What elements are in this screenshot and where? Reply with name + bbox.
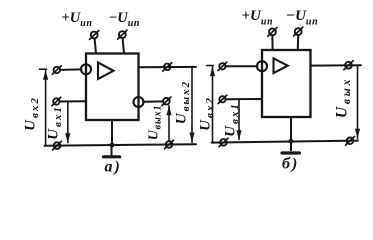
terminal rail right (a) — [165, 140, 174, 149]
junction (b) — [289, 139, 294, 144]
svg-text:Uвх1: Uвх1 — [46, 105, 64, 140]
dimension line Uвх2 (a) — [40, 69, 49, 145]
ground (b) — [282, 141, 300, 153]
terminal input 2 (b) — [218, 95, 227, 103]
wire +Uип to box top (a) — [95, 38, 96, 53]
terminal -Uип (a) — [118, 30, 127, 39]
svg-text:−Uип: −Uип — [286, 8, 318, 28]
op-amp U1 amplifier triangle — [98, 63, 114, 80]
svg-text:Uвх2: Uвх2 — [23, 96, 41, 131]
inversion circle input 1 (b) — [257, 61, 267, 71]
terminal rail right (b) — [346, 137, 355, 146]
dimension line Uвых1 (a) — [166, 106, 171, 142]
terminal rail left (a) — [53, 141, 62, 150]
wire +Uип to box top (b) — [271, 35, 273, 50]
terminal +Uип (b) — [268, 28, 277, 37]
svg-text:Uвх1: Uвх1 — [223, 102, 241, 137]
svg-text:+Uип: +Uип — [62, 10, 93, 29]
svg-text:Uвых2: Uвых2 — [174, 80, 192, 124]
terminal input 2 (a) — [52, 97, 61, 105]
wire -Uип to box top (b) — [297, 35, 299, 50]
ground (a) — [104, 145, 120, 157]
wire input 2 (b) — [226, 98, 262, 100]
dimension line Uвх1 (a) — [65, 102, 70, 143]
svg-text:Uвх2: Uвх2 — [198, 96, 216, 131]
terminal input 1 (b) — [218, 62, 227, 70]
terminal output (b) — [344, 61, 353, 70]
op-amp U2 amplifier triangle — [274, 58, 288, 73]
dimension line Uвых2 (a) — [189, 67, 194, 143]
common rail (b) — [212, 141, 359, 143]
wire output 1 top (a) — [139, 66, 197, 68]
terminal -Uип (b) — [294, 27, 303, 36]
common rail (a) — [45, 144, 197, 146]
svg-text:−Uип: −Uип — [109, 10, 141, 29]
terminal output 1 (a) — [163, 63, 172, 72]
terminal output 2 (a) — [162, 97, 171, 106]
op-amp U1 box — [86, 54, 139, 121]
inversion circle output 2 (a) — [134, 97, 144, 107]
terminal input 1 (a) — [52, 66, 61, 74]
svg-text:б): б) — [282, 156, 299, 173]
wire input 1 (a) — [60, 68, 81, 71]
dimension line Uвых (b) — [355, 65, 360, 138]
junction (a) — [110, 143, 115, 148]
wire output (b) — [311, 64, 362, 66]
inversion circle input 1 (a) — [81, 64, 91, 74]
dimension line Uвх2 (b) — [207, 66, 216, 143]
wire input 1 (b) — [226, 65, 258, 67]
wire box bottom to rail (b) — [290, 117, 292, 141]
op-amp U2 box — [262, 50, 311, 117]
wire input 2 (a) — [60, 100, 86, 102]
wire box bottom to rail (a) — [111, 120, 113, 145]
svg-text:Uвых1: Uвых1 — [147, 105, 164, 141]
wire -Uип to box top (a) — [123, 38, 124, 54]
terminal rail left (b) — [219, 138, 228, 147]
svg-text:а): а) — [105, 159, 122, 176]
dimension line Uвх1 (b) — [236, 99, 241, 139]
wire output 2 (a) — [143, 100, 163, 102]
svg-text:+Uип: +Uип — [242, 8, 274, 28]
svg-text:Uвых: Uвых — [334, 77, 354, 118]
terminal +Uип (a) — [90, 31, 99, 40]
